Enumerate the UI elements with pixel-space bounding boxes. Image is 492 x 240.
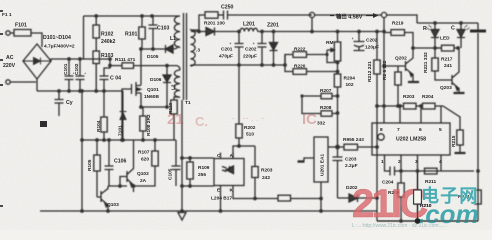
resistor R214 — [475, 190, 481, 204]
svg-text:C201: C201 — [221, 47, 233, 53]
svg-text:R220: R220 — [294, 64, 306, 70]
svg-text:510: 510 — [246, 132, 254, 138]
svg-text:102: 102 — [346, 82, 354, 88]
svg-text:F1 1: F1 1 — [2, 12, 12, 18]
wire driver rail — [82, 139, 176, 141]
svg-text:R210: R210 — [420, 203, 432, 209]
svg-text:C103: C103 — [157, 26, 170, 32]
svg-text:D101~D104: D101~D104 — [43, 35, 71, 41]
svg-text:R203: R203 — [403, 94, 415, 100]
svg-text:L2: L2 — [171, 84, 177, 90]
svg-text:D105: D105 — [147, 54, 159, 60]
svg-text:+: + — [229, 41, 232, 46]
resistor R206 — [278, 195, 321, 201]
resistor R208 — [302, 96, 338, 116]
faint middle watermark — [167, 111, 317, 129]
resistor R202 — [233, 124, 255, 159]
watermark dotcom — [418, 199, 479, 229]
svg-text:2: 2 — [398, 159, 401, 165]
svg-text:F101: F101 — [15, 23, 27, 29]
svg-text:R108 2R2: R108 2R2 — [146, 114, 152, 136]
AC input terminal upper — [6, 31, 14, 35]
resistor R102 — [93, 16, 99, 51]
wire led rail — [413, 47, 442, 49]
svg-text:R215: R215 — [451, 135, 457, 147]
wire R111 feed — [110, 65, 122, 67]
svg-text:R221 332: R221 332 — [423, 52, 429, 73]
resistor R212 — [374, 32, 380, 212]
wire right ground rail — [377, 220, 478, 222]
svg-text:2.2μF: 2.2μF — [345, 163, 358, 169]
resistor R217 — [435, 45, 458, 51]
svg-text:7: 7 — [397, 127, 400, 133]
LED C — [457, 23, 470, 48]
svg-text:+: + — [253, 41, 256, 46]
capacitor C105 — [172, 140, 181, 186]
zener Z101 — [120, 91, 127, 140]
svg-text:L204 B17: L204 B17 — [211, 196, 232, 202]
fuse F101 — [14, 30, 42, 48]
resistor R210 overlay — [414, 171, 432, 221]
wire trunk left — [81, 91, 83, 211]
svg-text:R201 100: R201 100 — [204, 21, 225, 27]
wire pin bus — [385, 165, 475, 171]
wire ref node — [328, 146, 338, 148]
MOSFET Q101 — [132, 82, 142, 107]
AC input terminal lower — [6, 80, 36, 84]
wire diag to R215 — [443, 106, 460, 130]
svg-text:C 04: C 04 — [110, 76, 121, 82]
svg-text:Q203: Q203 — [440, 85, 452, 91]
transistor Q203 — [452, 48, 465, 93]
svg-text:输出 4.58V: 输出 4.58V — [336, 13, 363, 21]
bridge rectifier D101-D104 — [23, 44, 51, 91]
diode D202 — [338, 194, 378, 202]
zener Z201 — [270, 32, 278, 66]
shunt reg U201 — [298, 137, 329, 211]
wire current sense rail — [141, 106, 167, 108]
svg-text:RM: RM — [326, 40, 333, 46]
resistor R203s — [252, 146, 258, 199]
resistor R215 — [455, 130, 466, 153]
svg-text:Cy: Cy — [66, 100, 73, 106]
svg-text:+: + — [352, 36, 355, 41]
diode D105 — [153, 45, 179, 53]
wire top right rail — [417, 22, 478, 24]
wire secondary bottom rail — [191, 64, 285, 66]
watermark url — [352, 223, 447, 229]
svg-text:R202: R202 — [244, 125, 256, 131]
capacitor C203 — [333, 147, 343, 198]
svg-text:R208: R208 — [320, 105, 332, 111]
resistor R110 — [171, 97, 180, 140]
capacitor C203e — [354, 32, 365, 51]
wire bottom ground rail — [40, 210, 377, 212]
svg-text:C: C — [217, 153, 221, 159]
svg-text:3: 3 — [415, 159, 418, 165]
svg-text:Q101: Q101 — [147, 87, 159, 93]
capacitor C201 — [235, 32, 244, 66]
svg-text:4: 4 — [439, 159, 442, 165]
wire output link — [315, 14, 381, 16]
svg-text:R219: R219 — [392, 21, 404, 27]
svg-text:A: A — [230, 153, 234, 159]
svg-text:8: 8 — [380, 127, 383, 133]
svg-text:R105: R105 — [87, 159, 93, 171]
svg-text:Q102: Q102 — [137, 171, 149, 177]
svg-text:220μF: 220μF — [243, 54, 257, 60]
inductor L1 — [141, 48, 153, 50]
resistor R210 — [414, 171, 420, 221]
svg-text:R104: R104 — [96, 120, 102, 132]
watermark dianziwang — [421, 185, 479, 206]
svg-text:R101: R101 — [125, 32, 138, 38]
svg-text:AC: AC — [6, 55, 14, 61]
svg-text:470μF: 470μF — [219, 54, 233, 60]
resistor R104 — [101, 91, 107, 140]
wire rail step — [376, 211, 378, 221]
svg-text:2A: 2A — [140, 178, 147, 184]
svg-text:Z201: Z201 — [267, 23, 279, 29]
wire fb node — [238, 65, 240, 124]
svg-text:4.7μF/400V×2: 4.7μF/400V×2 — [44, 44, 75, 50]
capacitor C102 — [76, 59, 85, 91]
resistor R107 — [134, 140, 159, 186]
resistor R205 — [338, 144, 378, 150]
svg-text:C202: C202 — [366, 38, 378, 44]
svg-text:332: 332 — [317, 121, 325, 127]
svg-text:C203: C203 — [345, 157, 357, 163]
svg-text:240k2: 240k2 — [101, 39, 116, 45]
wire opto cathode — [233, 192, 278, 199]
transistor Q202 — [396, 48, 419, 82]
svg-text:R103: R103 — [101, 53, 114, 59]
transformer T1 core — [184, 13, 187, 100]
svg-text:C106: C106 — [114, 159, 127, 165]
transformer primary W1 — [174, 16, 180, 48]
wire opto emitter rail — [182, 185, 214, 187]
svg-text:1: 1 — [381, 159, 384, 165]
svg-text:120μF: 120μF — [365, 45, 379, 51]
svg-text:R102: R102 — [101, 32, 114, 38]
svg-text:Q202: Q202 — [395, 56, 407, 62]
resistor R204b — [334, 74, 340, 147]
output terminal plus — [309, 12, 314, 31]
svg-text:L :...:http://www.21ic.com · d: L :...:http://www.21ic.com · dz.21ic.com… — [352, 223, 447, 229]
svg-text:.3: .3 — [196, 48, 200, 54]
wire top rail primary — [84, 15, 181, 17]
resistor R220 — [285, 55, 338, 75]
resistor R109 — [182, 158, 214, 186]
svg-text:R204: R204 — [422, 94, 434, 100]
inductor L201 — [240, 28, 382, 31]
svg-text:C101: C101 — [63, 63, 69, 75]
svg-text:C102: C102 — [74, 63, 80, 75]
svg-text:R207: R207 — [320, 88, 332, 94]
capacitor C106 — [105, 140, 114, 186]
svg-text:R204: R204 — [344, 76, 356, 82]
svg-text:U202 LM258: U202 LM258 — [396, 137, 426, 143]
capacitor C101 — [65, 59, 74, 91]
capacitor C250 — [224, 11, 313, 20]
svg-text:C250: C250 — [221, 5, 234, 11]
svg-text:LED: LED — [440, 36, 450, 42]
svg-text:L201: L201 — [243, 22, 255, 28]
resistor R222 — [285, 52, 327, 65]
wire Q102 base feed — [120, 177, 127, 187]
svg-text:R107: R107 — [138, 150, 150, 156]
svg-text:620: 620 — [141, 157, 149, 163]
resistor R207 — [302, 93, 338, 98]
resistor R201 — [205, 12, 224, 18]
svg-text:5: 5 — [439, 127, 442, 133]
watermark 21IC — [352, 182, 427, 226]
wire gate Q101 — [122, 89, 132, 140]
wire opto emitter down — [220, 192, 222, 211]
svg-text:R2 6 332: R2 6 332 — [382, 60, 388, 80]
transformer secondary W3 — [191, 29, 196, 66]
wire bottom rail primary — [37, 90, 123, 92]
resistor R209 — [398, 171, 404, 221]
svg-text:L1: L1 — [170, 36, 176, 42]
svg-text:T1: T1 — [185, 100, 191, 106]
optocoupler U204 — [214, 153, 244, 193]
ground arrow — [178, 100, 186, 220]
svg-text:R109: R109 — [198, 165, 210, 171]
svg-text:7101: 7101 — [118, 125, 124, 136]
capacitor C104 — [100, 59, 111, 91]
diode D201 — [191, 28, 240, 36]
wire ground overlay — [377, 218, 478, 223]
svg-text:241: 241 — [444, 63, 452, 69]
label output 4.5V — [330, 13, 379, 21]
svg-text:R211: R211 — [425, 179, 437, 185]
svg-text:C: C — [451, 26, 455, 32]
resistor R216 — [395, 66, 401, 106]
svg-text:C.: C. — [195, 114, 208, 129]
wire sense row — [376, 105, 443, 107]
svg-text:R217: R217 — [441, 57, 453, 63]
resistor R204r — [423, 103, 436, 109]
wire right main vertical — [384, 15, 417, 123]
svg-text:IC: IC — [302, 111, 317, 128]
svg-text:242: 242 — [262, 175, 270, 181]
edge artifacts — [0, 10, 47, 207]
svg-text:R222: R222 — [294, 47, 306, 53]
svg-text:- . -- . . -: - . -- . . - — [232, 113, 264, 123]
op-amp U202 — [372, 106, 450, 171]
resistor R221 — [432, 48, 452, 80]
wire riser to top rail — [83, 16, 85, 59]
capacitor Cy — [55, 91, 64, 116]
svg-text:6: 6 — [419, 127, 422, 133]
capacitor C204 — [390, 167, 395, 176]
LED R — [427, 23, 440, 48]
resistor R203r — [404, 103, 417, 109]
svg-text:U201 EA1: U201 EA1 — [320, 154, 326, 176]
resistor R103 — [93, 51, 99, 91]
svg-text:R111 471: R111 471 — [115, 57, 136, 63]
svg-text:1N60B: 1N60B — [144, 94, 159, 100]
svg-text:21: 21 — [167, 111, 184, 128]
potentiometer RM — [327, 32, 341, 75]
wire Q202 base — [384, 65, 396, 67]
battery bar — [470, 23, 486, 221]
output terminal second — [381, 12, 386, 17]
wire DC plus — [51, 59, 110, 61]
svg-text:256: 256 — [198, 172, 206, 178]
resistor R105 — [94, 140, 100, 197]
svg-text:R: R — [423, 26, 427, 32]
svg-text:D106: D106 — [150, 77, 162, 83]
transistor Q103 — [97, 186, 127, 211]
svg-text:R212 221: R212 221 — [367, 61, 373, 82]
svg-text:Q103: Q103 — [107, 202, 119, 208]
svg-text:C105: C105 — [168, 168, 174, 180]
resistor R211 — [425, 168, 438, 174]
resistor R219 — [384, 30, 413, 48]
resistor R101 — [139, 16, 145, 85]
svg-text:220V: 220V — [3, 63, 16, 69]
resistor R111 — [122, 63, 180, 70]
resistor R108 — [140, 107, 146, 140]
capacitor C103 — [149, 16, 158, 49]
svg-text:K: K — [230, 188, 234, 194]
svg-text:C202: C202 — [245, 47, 257, 53]
diode D106 — [163, 66, 171, 107]
svg-text:R955 24Ξ: R955 24Ξ — [343, 137, 364, 143]
transformer aux W2 — [174, 70, 180, 97]
transistor Q102 — [127, 140, 134, 192]
capacitor C202 — [258, 32, 267, 66]
svg-text:R203: R203 — [261, 168, 273, 174]
wire secondary top — [191, 15, 205, 30]
